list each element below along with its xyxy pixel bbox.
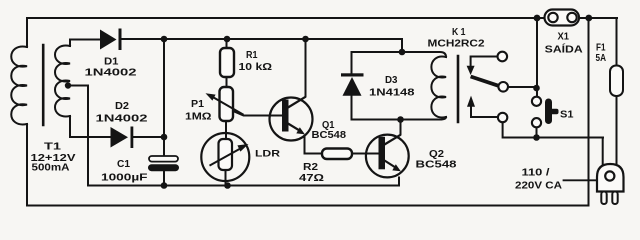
- wire C1 node vertical: [163, 39, 165, 186]
- svg-text:1MΩ: 1MΩ: [185, 112, 212, 123]
- wire ground rail: [88, 185, 399, 187]
- wire S1 rail: [536, 18, 539, 138]
- node X1 right: [585, 15, 592, 22]
- wire D2 output to node: [133, 136, 164, 138]
- transistor Q2 BC548: [366, 135, 409, 178]
- node ground C1: [161, 182, 168, 189]
- diode D1 1N4002: [100, 29, 122, 51]
- svg-text:220V CA: 220V CA: [515, 181, 562, 192]
- wire Q1 emitter to R2: [305, 136, 323, 154]
- relay K1 coil: [431, 57, 446, 118]
- svg-text:BC548: BC548: [312, 130, 347, 141]
- wire relay pole1 fixed terminal: [471, 57, 498, 67]
- relay pole1 blade: [471, 77, 501, 87]
- svg-text:1N4002: 1N4002: [85, 68, 138, 79]
- wire relay top loop: [352, 52, 447, 57]
- svg-text:1N4148: 1N4148: [369, 88, 415, 99]
- svg-text:R1: R1: [246, 50, 258, 61]
- svg-text:10 kΩ: 10 kΩ: [239, 62, 273, 73]
- fuse F1: [610, 66, 623, 97]
- svg-text:S1: S1: [560, 110, 574, 121]
- transformer core: [42, 45, 45, 125]
- wire bottom mains: [27, 205, 589, 207]
- svg-text:500mA: 500mA: [32, 163, 70, 174]
- wire Q1 collector to rail: [305, 39, 307, 97]
- transformer T1 primary coil: [11, 47, 27, 125]
- wire top mains: [27, 17, 617, 19]
- svg-text:X1: X1: [558, 32, 570, 43]
- svg-text:BC548: BC548: [416, 160, 458, 171]
- wire relay pole2 arrow shaft: [471, 107, 498, 118]
- transistor Q1 BC548: [270, 97, 313, 141]
- label pointer 110/220VCA: [564, 179, 598, 181]
- wire relay pole2 lower: [503, 122, 603, 165]
- svg-text:1N4002: 1N4002: [96, 114, 149, 125]
- node pole2 S1: [533, 134, 540, 141]
- node center tap: [65, 82, 71, 88]
- svg-text:D3: D3: [385, 75, 398, 86]
- svg-text:SAÍDA: SAÍDA: [545, 43, 583, 56]
- wire positive rail y39: [121, 39, 402, 52]
- LDR: [201, 133, 249, 181]
- wire fuse branch: [616, 18, 618, 164]
- svg-text:47Ω: 47Ω: [299, 173, 324, 184]
- svg-text:D1: D1: [104, 57, 119, 68]
- relay core: [457, 56, 460, 122]
- svg-text:P1: P1: [191, 99, 204, 110]
- svg-text:5A: 5A: [596, 53, 607, 64]
- wire secondary bottom to D2: [70, 116, 111, 137]
- relay pole2 up arrow: [467, 96, 475, 107]
- svg-text:Q2: Q2: [429, 149, 444, 160]
- relay contact terminal circles: [498, 52, 508, 62]
- svg-text:K 1: K 1: [452, 27, 466, 38]
- svg-text:C1: C1: [117, 159, 130, 170]
- svg-text:1000µF: 1000µF: [101, 173, 148, 184]
- wire relay bottom loop: [352, 117, 447, 120]
- node rail R1: [224, 36, 231, 43]
- capacitor C1: [148, 156, 179, 171]
- node X1 left: [534, 15, 541, 22]
- wire R2 to Q2 base: [352, 153, 379, 155]
- transformer T1 secondary coil: [55, 46, 70, 117]
- wire Q2 emitter to ground rail: [398, 178, 400, 186]
- wire R1 P1 LDR chain: [226, 39, 227, 186]
- diode D2 1N4002: [111, 127, 134, 149]
- node rail C1: [161, 36, 168, 43]
- switch S1: [532, 97, 559, 128]
- node pole1 S1: [533, 85, 540, 92]
- wire relay pole1 common to S1 rail: [508, 86, 537, 88]
- wire right return vertical: [588, 18, 590, 206]
- wire center tap to ground rail: [68, 86, 88, 186]
- svg-text:LDR: LDR: [255, 149, 280, 160]
- node relay bottom Q2: [397, 116, 404, 123]
- wire D3 vertical: [351, 52, 353, 120]
- wire Q2 collector: [400, 120, 402, 135]
- node relay top: [399, 49, 406, 56]
- mains plug: [597, 164, 624, 204]
- relay pole1 down arrow: [467, 66, 475, 75]
- node D2 C1: [161, 134, 168, 141]
- diode D3 1N4148: [341, 73, 364, 96]
- wire secondary top to D1: [70, 40, 100, 47]
- resistor R1: [220, 48, 234, 77]
- svg-text:110 /: 110 /: [522, 168, 550, 179]
- svg-text:T1: T1: [44, 142, 62, 153]
- node ground LDR: [224, 182, 231, 189]
- socket X1 SAIDA: [545, 10, 580, 26]
- svg-text:D2: D2: [115, 101, 129, 112]
- resistor R2: [322, 149, 352, 160]
- svg-text:F1: F1: [596, 43, 606, 54]
- svg-text:R2: R2: [303, 162, 318, 173]
- wire left vertical primary: [26, 18, 28, 206]
- wire P1 wiper to Q1 base: [233, 111, 282, 116]
- node rail Q1: [302, 36, 309, 43]
- potentiometer P1: [206, 87, 244, 121]
- svg-text:MCH2RC2: MCH2RC2: [428, 39, 486, 50]
